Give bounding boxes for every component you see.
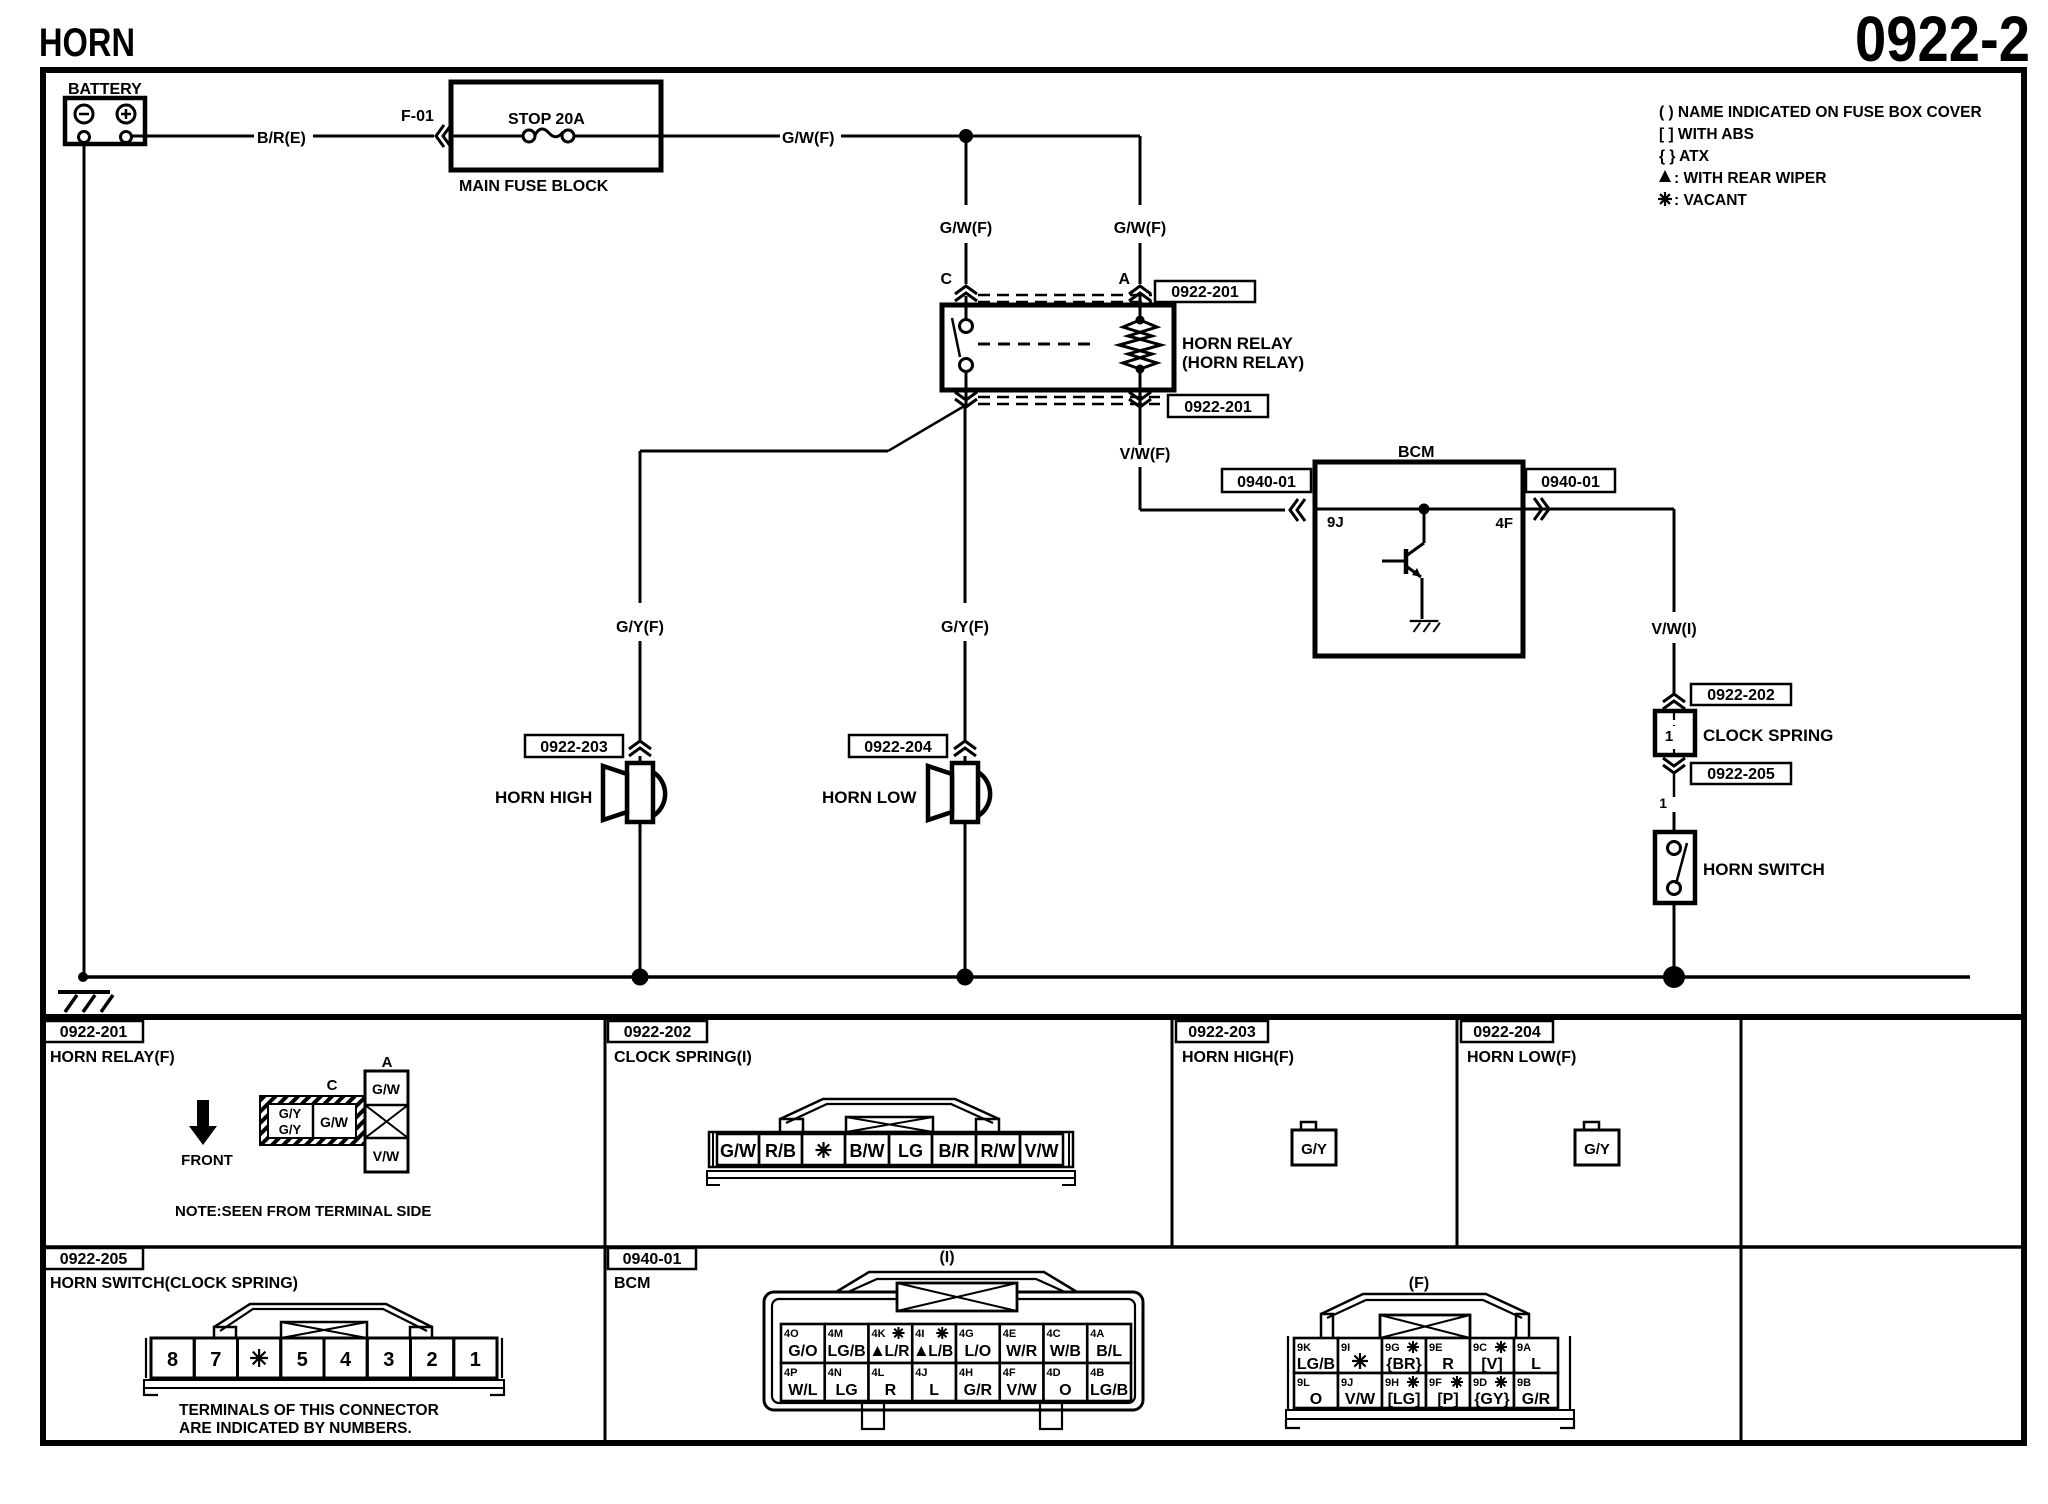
- svg-text:MAIN FUSE BLOCK: MAIN FUSE BLOCK: [459, 178, 609, 195]
- svg-text:3: 3: [383, 1349, 394, 1371]
- svg-text:{GY}: {GY}: [1474, 1391, 1510, 1408]
- svg-text:0940-01: 0940-01: [623, 1251, 682, 1268]
- svg-text:4D: 4D: [1047, 1367, 1061, 1379]
- svg-text:V/W: V/W: [1025, 1141, 1059, 1161]
- svg-text:FRONT: FRONT: [181, 1152, 233, 1169]
- svg-text:1: 1: [1659, 795, 1667, 811]
- svg-text:LG/B: LG/B: [1090, 1382, 1128, 1399]
- svg-text:9A: 9A: [1517, 1342, 1531, 1354]
- svg-text:5: 5: [297, 1349, 308, 1371]
- svg-text:L/B: L/B: [928, 1343, 953, 1360]
- svg-text:4C: 4C: [1047, 1328, 1061, 1340]
- svg-text:LG/B: LG/B: [828, 1343, 866, 1360]
- svg-text:W/R: W/R: [1006, 1343, 1038, 1360]
- svg-text:9J: 9J: [1341, 1377, 1353, 1389]
- svg-text:G/Y: G/Y: [1584, 1141, 1610, 1158]
- svg-text:{BR}: {BR}: [1386, 1356, 1422, 1373]
- svg-text:HORN LOW: HORN LOW: [822, 788, 917, 807]
- svg-text:9C: 9C: [1473, 1342, 1487, 1354]
- svg-text:L: L: [929, 1382, 939, 1399]
- svg-text:[P]: [P]: [1437, 1391, 1458, 1408]
- svg-text:4M: 4M: [828, 1328, 843, 1340]
- svg-text:9D: 9D: [1473, 1377, 1487, 1389]
- svg-text:9I: 9I: [1341, 1342, 1350, 1354]
- svg-text:: VACANT: : VACANT: [1674, 192, 1747, 209]
- svg-text:G/W: G/W: [372, 1081, 401, 1097]
- svg-text:0940-01: 0940-01: [1237, 474, 1296, 491]
- svg-text:9B: 9B: [1517, 1377, 1531, 1389]
- svg-text:0922-203: 0922-203: [540, 739, 608, 756]
- svg-text:L/R: L/R: [885, 1343, 910, 1360]
- svg-text:0922-205: 0922-205: [1707, 766, 1775, 783]
- svg-text:4B: 4B: [1090, 1367, 1104, 1379]
- svg-text:9J: 9J: [1327, 514, 1344, 531]
- svg-text:A: A: [1118, 271, 1130, 288]
- svg-text:0922-201: 0922-201: [1184, 399, 1252, 416]
- svg-text:G/Y: G/Y: [279, 1122, 302, 1137]
- svg-text:V/W(I): V/W(I): [1651, 621, 1696, 638]
- svg-text:4I: 4I: [915, 1328, 924, 1340]
- svg-text:R: R: [885, 1382, 897, 1399]
- svg-text:9L: 9L: [1297, 1377, 1310, 1389]
- svg-text:G/W(F): G/W(F): [782, 130, 834, 147]
- svg-text:V/W: V/W: [373, 1148, 400, 1164]
- svg-text:(HORN RELAY): (HORN RELAY): [1182, 353, 1304, 372]
- svg-text:ARE INDICATED BY NUMBERS.: ARE INDICATED BY NUMBERS.: [179, 1420, 412, 1437]
- svg-text:L: L: [1531, 1356, 1541, 1373]
- svg-text:TERMINALS OF THIS CONNECTOR: TERMINALS OF THIS CONNECTOR: [179, 1402, 439, 1419]
- svg-text:4E: 4E: [1003, 1328, 1016, 1340]
- svg-text:W/L: W/L: [788, 1382, 818, 1399]
- svg-text:O: O: [1310, 1391, 1322, 1408]
- svg-text:4K: 4K: [872, 1328, 886, 1340]
- svg-text:B/L: B/L: [1096, 1343, 1122, 1360]
- svg-text:LG/B: LG/B: [1297, 1356, 1335, 1373]
- svg-text:0922-201: 0922-201: [60, 1024, 128, 1041]
- svg-text:4O: 4O: [784, 1328, 799, 1340]
- svg-text:[V]: [V]: [1481, 1356, 1502, 1373]
- svg-text:G/Y(F): G/Y(F): [616, 619, 664, 636]
- svg-text:9K: 9K: [1297, 1342, 1311, 1354]
- svg-text:HORN HIGH(F): HORN HIGH(F): [1182, 1049, 1294, 1066]
- svg-text:4N: 4N: [828, 1367, 842, 1379]
- svg-text:C: C: [327, 1077, 338, 1094]
- svg-text:B/R: B/R: [939, 1141, 970, 1161]
- svg-text:4H: 4H: [959, 1367, 973, 1379]
- svg-text:(I): (I): [939, 1249, 954, 1266]
- svg-text:HORN SWITCH(CLOCK SPRING): HORN SWITCH(CLOCK SPRING): [50, 1275, 298, 1292]
- svg-text:0922-204: 0922-204: [1473, 1024, 1541, 1041]
- svg-text:0922-201: 0922-201: [1171, 284, 1239, 301]
- svg-text:G/Y(F): G/Y(F): [941, 619, 989, 636]
- svg-text:G/W: G/W: [720, 1141, 756, 1161]
- svg-text:V/W(F): V/W(F): [1120, 446, 1171, 463]
- svg-text:[ ] WITH ABS: [ ] WITH ABS: [1659, 126, 1754, 143]
- svg-text:C: C: [940, 271, 952, 288]
- svg-text:BCM: BCM: [1398, 444, 1434, 461]
- svg-text:NOTE:SEEN FROM TERMINAL SIDE: NOTE:SEEN FROM TERMINAL SIDE: [175, 1203, 431, 1220]
- svg-text:4J: 4J: [915, 1367, 927, 1379]
- svg-text:8: 8: [167, 1349, 178, 1371]
- svg-text:G/Y: G/Y: [1301, 1141, 1327, 1158]
- svg-text:4F: 4F: [1495, 515, 1513, 532]
- svg-text:G/Y: G/Y: [279, 1106, 302, 1121]
- svg-text:1: 1: [470, 1349, 481, 1371]
- svg-text:0922-2: 0922-2: [1855, 3, 2030, 75]
- svg-text:4A: 4A: [1090, 1328, 1104, 1340]
- svg-text:LG: LG: [836, 1382, 858, 1399]
- svg-text:HORN RELAY: HORN RELAY: [1182, 334, 1293, 353]
- svg-text:L/O: L/O: [965, 1343, 992, 1360]
- svg-text:HORN LOW(F): HORN LOW(F): [1467, 1049, 1576, 1066]
- svg-text:[LG]: [LG]: [1388, 1391, 1421, 1408]
- svg-text:G/W: G/W: [320, 1114, 349, 1130]
- svg-text:{ } ATX: { } ATX: [1659, 148, 1710, 165]
- svg-text:HORN: HORN: [39, 21, 135, 65]
- svg-text:R/B: R/B: [765, 1141, 796, 1161]
- svg-text:4P: 4P: [784, 1367, 797, 1379]
- svg-text:BATTERY: BATTERY: [68, 81, 142, 98]
- svg-text:LG: LG: [898, 1141, 923, 1161]
- svg-text:CLOCK SPRING(I): CLOCK SPRING(I): [614, 1049, 752, 1066]
- svg-text:0922-205: 0922-205: [60, 1251, 128, 1268]
- svg-text:G/R: G/R: [964, 1382, 993, 1399]
- svg-text:9E: 9E: [1429, 1342, 1442, 1354]
- svg-text:0922-202: 0922-202: [1707, 687, 1775, 704]
- svg-text:BCM: BCM: [614, 1275, 650, 1292]
- svg-text:V/W: V/W: [1345, 1391, 1376, 1408]
- svg-text:F-01: F-01: [401, 108, 434, 125]
- svg-text:4G: 4G: [959, 1328, 974, 1340]
- svg-text:A: A: [382, 1054, 393, 1071]
- svg-text:G/R: G/R: [1522, 1391, 1551, 1408]
- svg-text:W/B: W/B: [1050, 1343, 1081, 1360]
- svg-text:0940-01: 0940-01: [1541, 474, 1600, 491]
- svg-text:O: O: [1059, 1382, 1071, 1399]
- svg-text:2: 2: [427, 1349, 438, 1371]
- svg-text:4: 4: [340, 1349, 352, 1371]
- svg-text:9G: 9G: [1385, 1342, 1400, 1354]
- svg-text:4F: 4F: [1003, 1367, 1016, 1379]
- svg-text:4L: 4L: [872, 1367, 885, 1379]
- svg-text:1: 1: [1665, 728, 1673, 745]
- svg-text:CLOCK SPRING: CLOCK SPRING: [1703, 726, 1833, 745]
- svg-text:STOP 20A: STOP 20A: [508, 111, 585, 128]
- svg-text:(F): (F): [1409, 1275, 1429, 1292]
- svg-text:HORN SWITCH: HORN SWITCH: [1703, 860, 1825, 879]
- svg-text:HORN RELAY(F): HORN RELAY(F): [50, 1049, 175, 1066]
- svg-text:9F: 9F: [1429, 1377, 1442, 1389]
- svg-text:9H: 9H: [1385, 1377, 1399, 1389]
- svg-text:7: 7: [210, 1349, 221, 1371]
- svg-text:R/W: R/W: [981, 1141, 1016, 1161]
- svg-text:G/O: G/O: [788, 1343, 817, 1360]
- svg-text:( ) NAME INDICATED ON FUSE BOX: ( ) NAME INDICATED ON FUSE BOX COVER: [1659, 104, 1982, 121]
- svg-text:G/W(F): G/W(F): [1114, 220, 1166, 237]
- svg-text:B/R(E): B/R(E): [257, 130, 306, 147]
- svg-text:G/W(F): G/W(F): [940, 220, 992, 237]
- svg-text:0922-203: 0922-203: [1188, 1024, 1256, 1041]
- svg-text:: WITH REAR WIPER: : WITH REAR WIPER: [1674, 170, 1826, 187]
- svg-text:V/W: V/W: [1007, 1382, 1038, 1399]
- svg-text:R: R: [1442, 1356, 1454, 1373]
- svg-text:HORN HIGH: HORN HIGH: [495, 788, 592, 807]
- svg-text:0922-202: 0922-202: [624, 1024, 692, 1041]
- svg-text:B/W: B/W: [850, 1141, 885, 1161]
- svg-text:0922-204: 0922-204: [864, 739, 932, 756]
